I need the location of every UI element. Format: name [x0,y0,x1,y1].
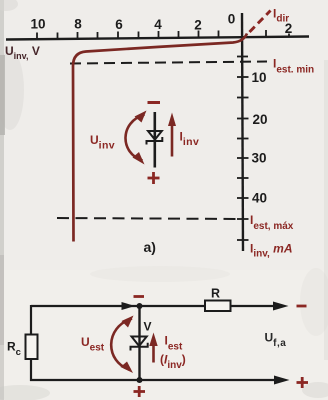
svg-text:2: 2 [194,18,202,33]
top wire to resistor R [140,305,206,307]
svg-text:0: 0 [228,12,236,27]
svg-text:10: 10 [30,17,45,32]
label I_inv [180,130,200,149]
left wire below R_c [30,359,32,381]
x axis (U_inv) [6,37,309,40]
y axis numbers [252,70,268,206]
minus sign above middle node [134,295,145,298]
circuit zener diode V [131,337,148,351]
y axis (I_inv) [242,13,243,251]
label I_inv, mA [250,242,293,260]
svg-text:30: 30 [252,151,267,166]
x axis numbers [30,12,292,37]
label I_dir [273,7,289,25]
label U_est [81,335,105,354]
minus terminal [297,305,307,308]
resistor R_c [26,335,38,360]
I_inv arrow [168,113,176,157]
plus terminal [297,377,309,388]
minus sign above graph diode [148,101,161,104]
label I_est, max [250,213,294,232]
plus sign below bottom node [134,386,146,397]
label (I_inv) [160,353,186,372]
resistor R [205,301,231,312]
dashed level line I_est,max [57,218,243,219]
svg-text:R: R [211,287,220,301]
reverse characteristic curve [73,34,247,242]
label I_est. min [273,57,314,76]
svg-text:a): a) [144,239,156,255]
plus sign below graph diode [148,172,160,184]
label R [211,287,220,301]
node junction top [137,303,143,309]
top wire left segment with current arrow [31,302,140,310]
label U_inv [90,133,115,152]
I_est arrow [149,333,157,363]
x axis label U_inv, V [5,44,40,61]
top wire output with arrow [231,302,289,311]
svg-text:V: V [144,320,152,334]
svg-text:10: 10 [252,70,267,85]
U_est double arc arrow [111,316,133,374]
svg-text:40: 40 [252,191,267,206]
U_inv double arc arrow [125,111,146,165]
graph zener diode V [147,112,163,168]
svg-text:6: 6 [115,17,123,32]
node junction bottom [137,377,143,383]
svg-text:8: 8 [74,17,82,32]
svg-text:4: 4 [154,17,162,32]
label U_f,a [265,331,287,350]
middle branch wire [138,306,140,380]
left wire down to R_c [30,305,32,335]
label I_est [165,334,183,353]
y axis ticks [237,57,249,241]
x axis ticks [37,30,289,40]
label a) [144,239,156,255]
bottom wire with output arrow [30,376,290,385]
label V [144,320,152,334]
label R_c [7,340,21,359]
forward characteristic dashed curve I_dir [250,11,271,33]
dashed level line I_est.min [70,62,267,64]
svg-text:20: 20 [253,112,268,127]
